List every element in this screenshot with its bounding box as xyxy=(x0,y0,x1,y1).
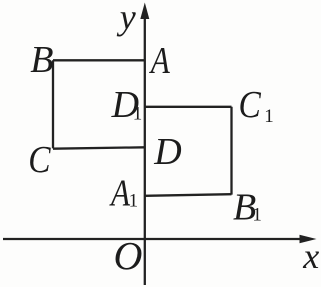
svg-text:A: A xyxy=(149,39,171,82)
label D1 xyxy=(111,84,143,126)
svg-text:1: 1 xyxy=(264,106,274,127)
svg-text:y: y xyxy=(117,0,136,37)
label B1 xyxy=(233,186,262,228)
svg-text:1: 1 xyxy=(252,205,262,226)
svg-text:B: B xyxy=(30,39,53,81)
svg-text:x: x xyxy=(302,236,319,276)
side B1A1 of rectangle A1B1C1D1 xyxy=(145,194,232,196)
side CD of rectangle ABCD xyxy=(53,147,145,148)
side AB of rectangle ABCD xyxy=(53,59,145,61)
y-axis arrowhead xyxy=(140,3,149,20)
side D1C1 of rectangle A1B1C1D1 xyxy=(145,106,232,108)
label A1 xyxy=(109,172,138,215)
svg-text:C: C xyxy=(28,138,51,180)
svg-text:1: 1 xyxy=(129,190,139,211)
y-axis xyxy=(144,14,146,285)
svg-text:A: A xyxy=(109,172,131,215)
svg-text:1: 1 xyxy=(133,103,143,124)
svg-text:O: O xyxy=(114,234,143,279)
x-axis xyxy=(3,238,303,240)
side C1B1 of rectangle A1B1C1D1 xyxy=(230,107,232,195)
side BC of rectangle ABCD xyxy=(52,60,54,148)
svg-text:C: C xyxy=(239,83,262,125)
x-axis arrowhead xyxy=(300,235,317,244)
svg-text:D: D xyxy=(153,131,181,173)
label C1 xyxy=(239,83,274,127)
